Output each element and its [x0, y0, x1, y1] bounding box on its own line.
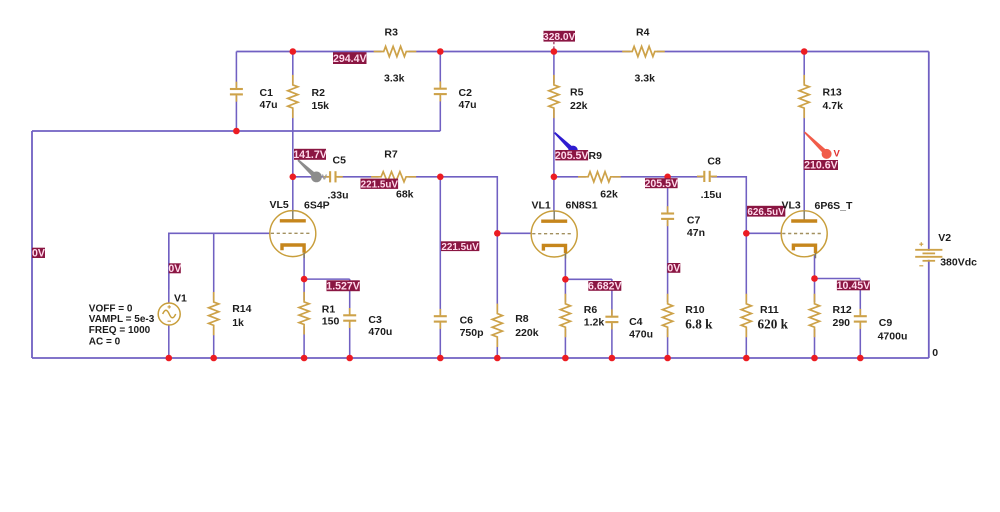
capacitor C6	[433, 309, 448, 329]
svg-text:R13: R13	[823, 87, 842, 99]
junction R7 C6	[437, 174, 444, 181]
svg-text:R1: R1	[322, 303, 336, 315]
junction R6 ground	[562, 355, 569, 362]
svg-text:FREQ = 1000: FREQ = 1000	[89, 325, 151, 336]
junction C6 ground	[437, 355, 444, 362]
svg-text:47u: 47u	[260, 99, 278, 111]
svg-text:3.3k: 3.3k	[635, 73, 656, 85]
svg-text:4.7k: 4.7k	[823, 100, 844, 112]
wire VL5 cathode to C3	[304, 278, 350, 280]
resistor R10	[661, 294, 675, 337]
capacitor C4	[604, 309, 619, 329]
net label 141.7V	[293, 149, 327, 161]
resistor R13	[797, 75, 811, 118]
svg-text:VL3: VL3	[782, 199, 801, 211]
wire C4 column	[611, 279, 613, 358]
svg-text:R4: R4	[636, 27, 650, 39]
svg-text:470u: 470u	[368, 326, 392, 338]
resistor R12	[808, 294, 822, 337]
net label 221.5uV R7	[361, 179, 399, 191]
wire V1 top lead	[168, 233, 170, 303]
svg-text:294.4V: 294.4V	[333, 53, 367, 65]
value C8 .15u	[701, 189, 722, 201]
label C7	[687, 214, 701, 226]
value C1 47u	[260, 99, 278, 111]
tube VL1	[531, 211, 577, 259]
svg-text:C9: C9	[879, 317, 893, 329]
svg-text:VAMPL = 5e-3: VAMPL = 5e-3	[89, 314, 155, 325]
svg-text:C1: C1	[260, 87, 274, 99]
label R8	[515, 313, 529, 325]
wire V1 bottom lead	[168, 325, 170, 358]
svg-text:R11: R11	[760, 304, 779, 316]
svg-text:R7: R7	[384, 148, 398, 160]
net label 210.6V	[804, 160, 838, 172]
value R14 1k	[232, 317, 244, 329]
value R9 62k	[600, 189, 618, 201]
label anchor 328.0V	[553, 42, 555, 50]
label VL1	[532, 200, 551, 212]
capacitor C3	[342, 308, 357, 328]
svg-text:C4: C4	[629, 316, 643, 328]
label R2	[312, 87, 326, 99]
wire R7 to VL1 grid	[440, 177, 531, 234]
label R6	[584, 304, 598, 316]
svg-text:VL1: VL1	[532, 200, 551, 212]
value VL1 6N8S1	[566, 200, 598, 212]
net label 6.682V	[588, 281, 622, 293]
wire top supply rail	[236, 51, 928, 53]
value R11 620k	[758, 316, 789, 331]
svg-text:R3: R3	[385, 27, 399, 39]
capacitor C8	[697, 169, 717, 184]
param V1 AC	[89, 336, 121, 347]
junction R2 top rail	[290, 48, 297, 55]
capacitor C9	[853, 309, 868, 329]
resistor R14	[207, 292, 221, 335]
svg-text:R12: R12	[833, 304, 852, 316]
junction C7 C8	[664, 174, 671, 181]
svg-text:.15u: .15u	[701, 189, 722, 201]
wire VL1 cathode column	[564, 255, 566, 358]
value R8 220k	[515, 327, 539, 339]
wire R2 column	[292, 52, 294, 177]
label R12	[833, 304, 852, 316]
wire VL3 cathode column	[814, 255, 816, 358]
capacitor C1	[229, 82, 244, 102]
svg-text:205.5V: 205.5V	[555, 150, 589, 162]
svg-text:V2: V2	[938, 232, 951, 244]
svg-text:15k: 15k	[312, 100, 330, 112]
junction R5 top rail	[551, 48, 558, 55]
svg-text:210.6V: 210.6V	[804, 160, 838, 172]
svg-text:0V: 0V	[168, 263, 181, 275]
value R3 3.3k	[384, 73, 405, 85]
svg-text:AC = 0: AC = 0	[89, 336, 121, 347]
svg-text:47u: 47u	[459, 99, 477, 111]
wire R13 column	[803, 52, 805, 211]
svg-text:221.5uV: 221.5uV	[361, 179, 399, 190]
resistor R4	[622, 45, 665, 59]
junction VL3 grid R11	[743, 230, 750, 237]
svg-text:C7: C7	[687, 214, 701, 226]
svg-text:328.0V: 328.0V	[543, 32, 575, 43]
junction VL1 grid R8	[494, 230, 501, 237]
svg-text:380Vdc: 380Vdc	[940, 257, 977, 269]
wire C9 column	[859, 279, 861, 358]
net 0 ground	[932, 347, 938, 359]
wire VL1 cathode to C4	[565, 278, 612, 280]
svg-text:10.45V: 10.45V	[837, 280, 871, 292]
svg-text:205.5V: 205.5V	[645, 178, 679, 190]
svg-text:VOFF = 0: VOFF = 0	[89, 303, 133, 314]
wire bottom ground rail	[32, 357, 929, 359]
label V1	[174, 293, 187, 305]
svg-text:0V: 0V	[32, 248, 45, 260]
resistor R1	[297, 292, 311, 335]
label C5	[333, 154, 347, 166]
battery V2	[915, 242, 942, 266]
svg-text:750p: 750p	[460, 327, 484, 339]
net label 0V R10	[667, 263, 680, 275]
junction VL1 anode	[551, 174, 558, 181]
wire V2 supply column	[928, 52, 930, 359]
svg-text:1.527V: 1.527V	[326, 280, 360, 292]
junction R14 ground	[210, 355, 217, 362]
label C2	[459, 87, 473, 99]
probe marker R13 red	[804, 132, 841, 160]
junction R11 ground	[743, 355, 750, 362]
label R3	[385, 27, 399, 39]
resistor R8	[490, 304, 504, 347]
net label 0V V1	[168, 263, 181, 275]
capacitor C2	[433, 81, 448, 101]
value VL5 6S4P	[304, 200, 330, 212]
value R2 15k	[312, 100, 330, 112]
value R6 1.2k	[584, 316, 605, 328]
param V1 VOFF	[89, 303, 133, 314]
svg-text:3.3k: 3.3k	[384, 73, 405, 85]
label C4	[629, 316, 643, 328]
svg-text:6N8S1: 6N8S1	[566, 200, 598, 212]
svg-text:.33u: .33u	[328, 189, 349, 201]
svg-text:62k: 62k	[600, 189, 618, 201]
junction R10 ground	[664, 355, 671, 362]
label R9	[589, 150, 603, 162]
svg-text:C5: C5	[333, 154, 347, 166]
net label 205.5V R5	[555, 150, 589, 162]
wire left feedback bus	[31, 131, 33, 358]
value C9 4700u	[878, 331, 908, 343]
svg-text:C3: C3	[368, 314, 382, 326]
param V1 FREQ	[89, 325, 151, 336]
junction VL5 cathode	[301, 276, 308, 283]
wire R5 column	[553, 52, 555, 212]
tube VL3	[781, 211, 827, 258]
svg-text:R9: R9	[589, 150, 603, 162]
svg-text:626.5uV: 626.5uV	[747, 207, 785, 218]
label R5	[570, 87, 584, 99]
value C7 47n	[687, 227, 705, 239]
svg-text:620 k: 620 k	[758, 316, 789, 331]
junction V1 ground	[166, 355, 173, 362]
value VL3 6P6S_T	[815, 200, 854, 212]
svg-text:150: 150	[322, 315, 340, 327]
value C2 47u	[459, 99, 477, 111]
wire V1 to VL5 grid	[169, 233, 270, 289]
wire C6 column	[439, 177, 441, 358]
resistor R7	[371, 170, 416, 184]
svg-text:R14: R14	[232, 303, 251, 315]
wire R11 column	[745, 233, 747, 358]
junction C3 ground	[346, 355, 353, 362]
svg-text:V1: V1	[174, 293, 187, 305]
junction VL5 anode	[290, 174, 297, 181]
svg-text:C8: C8	[707, 155, 721, 167]
wire C1 column	[235, 52, 237, 132]
junction R1 ground	[301, 355, 308, 362]
svg-text:R6: R6	[584, 304, 598, 316]
value R7 68k	[396, 189, 414, 201]
resistor R5	[547, 75, 561, 118]
value R4 3.3k	[635, 73, 656, 85]
svg-text:0V: 0V	[667, 263, 680, 275]
resistor R3	[374, 45, 417, 59]
wire R14 column	[213, 233, 215, 358]
svg-text:290: 290	[833, 317, 851, 329]
wire C3 column	[349, 279, 351, 358]
wire C8 to VL3 grid	[668, 177, 782, 234]
net label 294.4V	[333, 52, 367, 65]
svg-text:C2: C2	[459, 87, 473, 99]
svg-text:220k: 220k	[515, 327, 539, 339]
label C1	[260, 87, 274, 99]
svg-text:0: 0	[932, 347, 938, 359]
wire R8 column	[496, 233, 498, 358]
junction C9 ground	[857, 355, 864, 362]
wire C2 column	[439, 52, 441, 132]
source V1	[158, 303, 180, 325]
label V2	[938, 232, 951, 244]
label C9	[879, 317, 893, 329]
resistor R2	[286, 75, 300, 118]
svg-text:6P6S_T: 6P6S_T	[815, 200, 854, 212]
label C3	[368, 314, 382, 326]
resistor R11	[739, 294, 753, 337]
capacitor C5	[323, 169, 343, 184]
probe marker C5 gray	[297, 159, 327, 182]
value C4 470u	[629, 329, 653, 341]
junction R8 ground	[494, 355, 501, 362]
tube VL5	[270, 211, 316, 259]
wire feedback to C2	[32, 130, 440, 132]
junction VL1 cathode	[562, 276, 569, 283]
svg-text:47n: 47n	[687, 227, 705, 239]
probe marker R5 blue	[554, 132, 578, 155]
param V1 VAMPL	[89, 314, 155, 325]
svg-text:6S4P: 6S4P	[304, 200, 330, 212]
wire C5 R7 row	[293, 176, 441, 178]
svg-text:R8: R8	[515, 313, 529, 325]
wire VL5 cathode column	[303, 255, 305, 358]
label C8	[707, 155, 721, 167]
svg-text:VL5: VL5	[270, 199, 289, 211]
svg-text:R10: R10	[685, 304, 704, 316]
label VL5	[270, 199, 289, 211]
svg-text:R2: R2	[312, 87, 326, 99]
svg-text:6.682V: 6.682V	[588, 281, 622, 293]
label R14	[232, 303, 251, 315]
net label 221.5uV C6	[441, 241, 479, 253]
svg-text:141.7V: 141.7V	[293, 149, 327, 161]
junction VL3 cathode	[811, 275, 818, 282]
value R13 4.7k	[823, 100, 844, 112]
svg-text:R5: R5	[570, 87, 584, 99]
resistor R6	[558, 294, 572, 337]
net label 0V bus	[32, 248, 45, 260]
svg-text:C6: C6	[460, 315, 474, 327]
junction C4 ground	[609, 355, 616, 362]
net label 205.5V C7	[645, 178, 679, 190]
svg-text:221.5uV: 221.5uV	[441, 242, 479, 253]
value R12 290	[833, 317, 851, 329]
resistor R9	[578, 170, 621, 184]
value C5 .33u	[328, 189, 349, 201]
net label 626.5uV	[747, 206, 785, 218]
junction R12 ground	[811, 355, 818, 362]
svg-text:V: V	[834, 149, 841, 160]
value C6 750p	[460, 327, 484, 339]
junction R13 top rail	[801, 48, 808, 55]
junction C1 feedback	[233, 128, 240, 135]
svg-text:1.2k: 1.2k	[584, 316, 605, 328]
label R10	[685, 304, 704, 316]
label R7	[384, 148, 398, 160]
label R13	[823, 87, 842, 99]
value C3 470u	[368, 326, 392, 338]
capacitor C7	[660, 206, 675, 226]
svg-text:68k: 68k	[396, 189, 414, 201]
wire R9 row	[554, 176, 668, 178]
svg-text:1k: 1k	[232, 317, 244, 329]
label C6	[460, 315, 474, 327]
net label 328.0V	[543, 31, 575, 43]
svg-text:v: v	[322, 172, 328, 183]
svg-text:4700u: 4700u	[878, 331, 908, 343]
net label 10.45V	[837, 280, 871, 292]
label R11	[760, 304, 779, 316]
wire VL3 cathode to C9	[815, 278, 861, 280]
label R1	[322, 303, 336, 315]
svg-text:22k: 22k	[570, 100, 588, 112]
net label 1.527V	[326, 280, 360, 292]
value R5 22k	[570, 100, 588, 112]
wire VL5 anode	[292, 177, 294, 211]
value V2 380Vdc	[940, 257, 977, 269]
junction C2 top rail	[437, 48, 444, 55]
svg-text:6.8 k: 6.8 k	[685, 316, 713, 331]
value R1 150	[322, 315, 340, 327]
wire C7 R10 column	[667, 177, 669, 358]
value R10 6.8k	[685, 316, 713, 331]
svg-text:470u: 470u	[629, 329, 653, 341]
label R4	[636, 27, 650, 39]
label VL3	[782, 199, 801, 211]
